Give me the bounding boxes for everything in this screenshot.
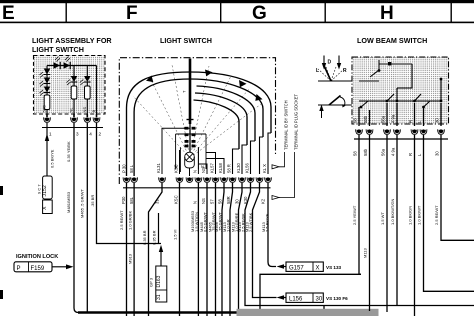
svg-text:2.5 RE/WT: 2.5 RE/WT [119,210,124,230]
switch lever [189,59,192,125]
wire: far right branch plain [96,66,98,115]
svg-text:VS 133: VS 133 [326,265,342,270]
stub from RE/BK bus down to block [323,306,325,311]
connector pins under assembly [44,114,100,122]
svg-text:D: D [328,60,332,66]
low beam pins to connectors [359,103,441,126]
svg-text:H: H [380,3,394,24]
wire 57 .75 GR/WT [215,183,217,316]
svg-text:LIGHT SWITCH: LIGHT SWITCH [160,36,212,45]
wire: middle branch [73,66,75,77]
svg-text:NS: NS [82,107,87,113]
svg-text:KL58: KL58 [218,163,223,173]
wire K30 2.5 RE/BK with jog, corner right at bottom [245,183,474,306]
svg-text:2.5 BK/YE: 2.5 BK/YE [264,213,269,232]
wire K2 2.5 WT/BK to L156 [253,183,274,298]
wire 4 long vertical [86,123,88,312]
arrow to G157 [277,264,285,269]
wire 58b M113 [369,135,371,311]
terminal id leader arrows [272,93,299,199]
light switch connector row [123,177,271,182]
svg-text:L156: L156 [289,297,303,303]
svg-text:D163: D163 [156,275,162,287]
svg-text:56a: 56a [381,148,386,156]
low beam terminal labels [353,114,440,123]
block at bottom edge (cut off) [237,309,379,316]
svg-text:1.5 WT: 1.5 WT [380,212,385,225]
svg-text:30: 30 [435,118,440,123]
svg-text:J152: J152 [42,185,48,196]
connector box G157 X [286,262,323,272]
svg-text:1.5 VI: 1.5 VI [173,230,178,240]
svg-text:30: 30 [316,297,323,303]
LED stack left branch [40,69,51,96]
svg-text:M113: M113 [363,248,368,258]
wire 58L 1.0 GR/BK [133,183,135,316]
svg-text:K2: K2 [261,198,266,204]
wire R 1.0 BK/GN [414,135,416,316]
staircase from arcs to terminals [233,133,272,174]
wire 31 0.35 BR with jog [149,183,163,316]
svg-text:KL31: KL31 [156,163,161,173]
wire KSC 1.5 VI [179,183,181,316]
svg-text:KL X: KL X [262,164,267,173]
svg-text:4: 4 [89,132,92,137]
svg-text:N: N [193,201,198,204]
plug socket labels (lower row) [121,195,266,204]
low beam connector row [356,129,445,134]
plug socket line under assembly [42,127,103,129]
svg-text:M481/M553: M481/M553 [66,191,71,213]
low beam switch housing (dotted, dash-dot border) [352,57,449,124]
svg-text:M913: M913 [128,253,133,264]
svg-text:KL57: KL57 [210,163,215,173]
wire: left branch [46,66,48,96]
wire 58R 1.0 GR with jog [230,183,233,316]
arc arrowheads [146,76,153,83]
svg-text:58b: 58b [363,148,368,156]
svg-text:0.5 BK/YE: 0.5 BK/YE [50,149,55,168]
indicator lamp in switch [185,152,195,176]
svg-text:1: 1 [49,132,52,137]
svg-text:30: 30 [235,199,240,204]
svg-text:NL: NL [69,107,74,113]
svg-text:58L: 58L [129,196,134,204]
svg-text:B: B [91,110,96,113]
svg-text:KSC: KSC [174,164,179,173]
resistor R2 middle branch [71,86,77,99]
wire N 1.5 WT/GN [197,183,199,316]
svg-text:GP 3: GP 3 [149,277,154,287]
turn lever L D R [316,56,352,82]
wire: top bus inside assembly [47,65,97,67]
wire P30 2.5 RE/WT [126,183,128,316]
svg-text:31: 31 [156,294,162,300]
svg-text:P30: P30 [121,196,126,204]
switch terminal labels (upper row) [122,163,268,173]
svg-text:IGNITION LOCK: IGNITION LOCK [16,254,58,260]
svg-text:9 C 7: 9 C 7 [37,184,42,194]
wire KLX 2.5 BK/YE to G157 [268,183,276,267]
arc A5 [194,100,240,149]
svg-text:1.0 BK/WT: 1.0 BK/WT [417,205,422,225]
return wire from low beam 58 down into block [260,274,361,316]
svg-text:G157: G157 [289,266,304,272]
wire 4 9a 1.0 BK/WT/GN [396,135,398,306]
svg-text:P: P [17,266,21,272]
svg-text:58 L: 58 L [129,164,134,173]
resistor R1 left branch [44,95,50,110]
wire 30 1.0 GR/RE with jog [239,183,243,309]
page edge marks [0,186,3,195]
thick bottom bus [78,311,237,313]
svg-text:58C: 58C [42,105,47,112]
ground box 31 / D163 [156,266,167,302]
svg-text:2.5 YE/WT: 2.5 YE/WT [352,205,357,225]
low beam switch internal contacts [359,60,441,107]
wire 56a 1.5 WT [386,135,388,312]
svg-text:TERMINAL ID PLUG SOCKET: TERMINAL ID PLUG SOCKET [294,93,299,150]
wire 58 2.5 YE/WT [359,135,361,274]
plug socket line light switch [123,187,271,189]
svg-text:F159: F159 [31,266,45,272]
svg-text:58: 58 [353,118,358,123]
arrow from F159 to wire 3 [52,264,74,269]
contact block [176,124,206,172]
grid header row [0,0,474,24]
svg-text:0.35 BR: 0.35 BR [142,230,147,245]
svg-text:4 9a: 4 9a [391,147,396,156]
svg-text:NS: NS [201,198,206,204]
svg-text:R: R [408,153,413,156]
wire 2 down and corner right [97,123,162,244]
svg-text:VS 130 F6: VS 130 F6 [326,296,348,301]
diode D1 on top bus [54,57,61,70]
wire L 1.0 BK/WT corner right [424,135,474,291]
dashed selector rays [133,65,261,158]
svg-text:0.35 BR: 0.35 BR [152,230,157,245]
box X below J152 [42,200,52,214]
svg-text:1.0 BK/WT/GN: 1.0 BK/WT/GN [390,198,395,225]
svg-text:N: N [193,170,198,173]
LED middle branch [67,76,78,85]
svg-text:4 9a: 4 9a [391,114,396,123]
svg-text:E: E [2,3,15,24]
svg-text:0.35 YE/BK: 0.35 YE/BK [66,141,71,162]
wire NS 0.5 GR/WT [206,183,208,316]
svg-text:1.0 BK/GN: 1.0 BK/GN [408,206,413,225]
resistor R3 right branch [85,86,91,99]
svg-text:R: R [408,120,413,123]
wire 3 long vertical [74,123,79,313]
svg-text:2.5 WT/BK: 2.5 WT/BK [248,212,253,232]
svg-text:LOW BEAM SWITCH: LOW BEAM SWITCH [357,36,427,45]
svg-text:M465 .5 GR/WT: M465 .5 GR/WT [80,189,85,218]
svg-text:TERMINAL ID BY SWITCH: TERMINAL ID BY SWITCH [284,100,289,150]
svg-text:1.0 GR/BK: 1.0 GR/BK [128,211,133,230]
svg-text:P 30: P 30 [122,164,127,173]
svg-text:L: L [316,68,319,74]
svg-text:2.5 RE/WT: 2.5 RE/WT [434,205,439,225]
wires from contact block to terminals [162,128,224,174]
wire 1 with up arrow to J152 [45,123,49,176]
svg-text:58: 58 [218,199,223,204]
svg-text:58 R: 58 R [227,164,232,173]
svg-text:G: G [252,3,267,24]
arc A3 [197,86,256,141]
svg-text:.35 BR: .35 BR [90,195,95,207]
svg-text:LIGHT SWITCH: LIGHT SWITCH [32,45,84,54]
arc A2 [134,79,263,176]
svg-text:58: 58 [353,151,358,156]
svg-text:X: X [316,266,320,272]
svg-text:3: 3 [76,132,79,137]
svg-text:58b: 58b [363,115,368,123]
wire: left pin to box bottom [46,110,48,115]
svg-text:KL30: KL30 [236,163,241,173]
wire: right branch [86,66,88,77]
LED right branch [80,76,91,85]
svg-text:KSC: KSC [174,195,179,204]
svg-text:2: 2 [99,132,102,137]
wire 58 .75 GR/WT with jog [222,183,224,316]
svg-text:F: F [126,3,138,24]
svg-text:57: 57 [209,199,214,204]
svg-text:NS: NS [201,167,206,173]
D163 reference arrow [159,245,163,266]
low beam socket labels [353,147,440,156]
arc A1 outermost [127,72,272,176]
light assembly housing box (dotted) [34,56,106,115]
svg-text:R: R [343,68,347,74]
plug socket line low beam [354,138,448,140]
light switch boundary (dash-dot) [119,58,275,184]
arc A4 [195,93,247,145]
connector box L156 30 [286,293,323,303]
svg-text:58R: 58R [226,196,231,204]
relay box J152 [42,176,52,199]
arrow to L156 [277,295,285,300]
svg-text:30: 30 [435,151,440,156]
wire 30 2.5 RE/WT corner right [441,135,474,240]
diode D2 on top bus [64,57,71,70]
svg-text:LIGHT ASSEMBLY FOR: LIGHT ASSEMBLY FOR [32,36,112,45]
svg-text:KL56: KL56 [245,163,250,173]
svg-text:56a: 56a [381,115,386,123]
flash lever [318,96,352,119]
